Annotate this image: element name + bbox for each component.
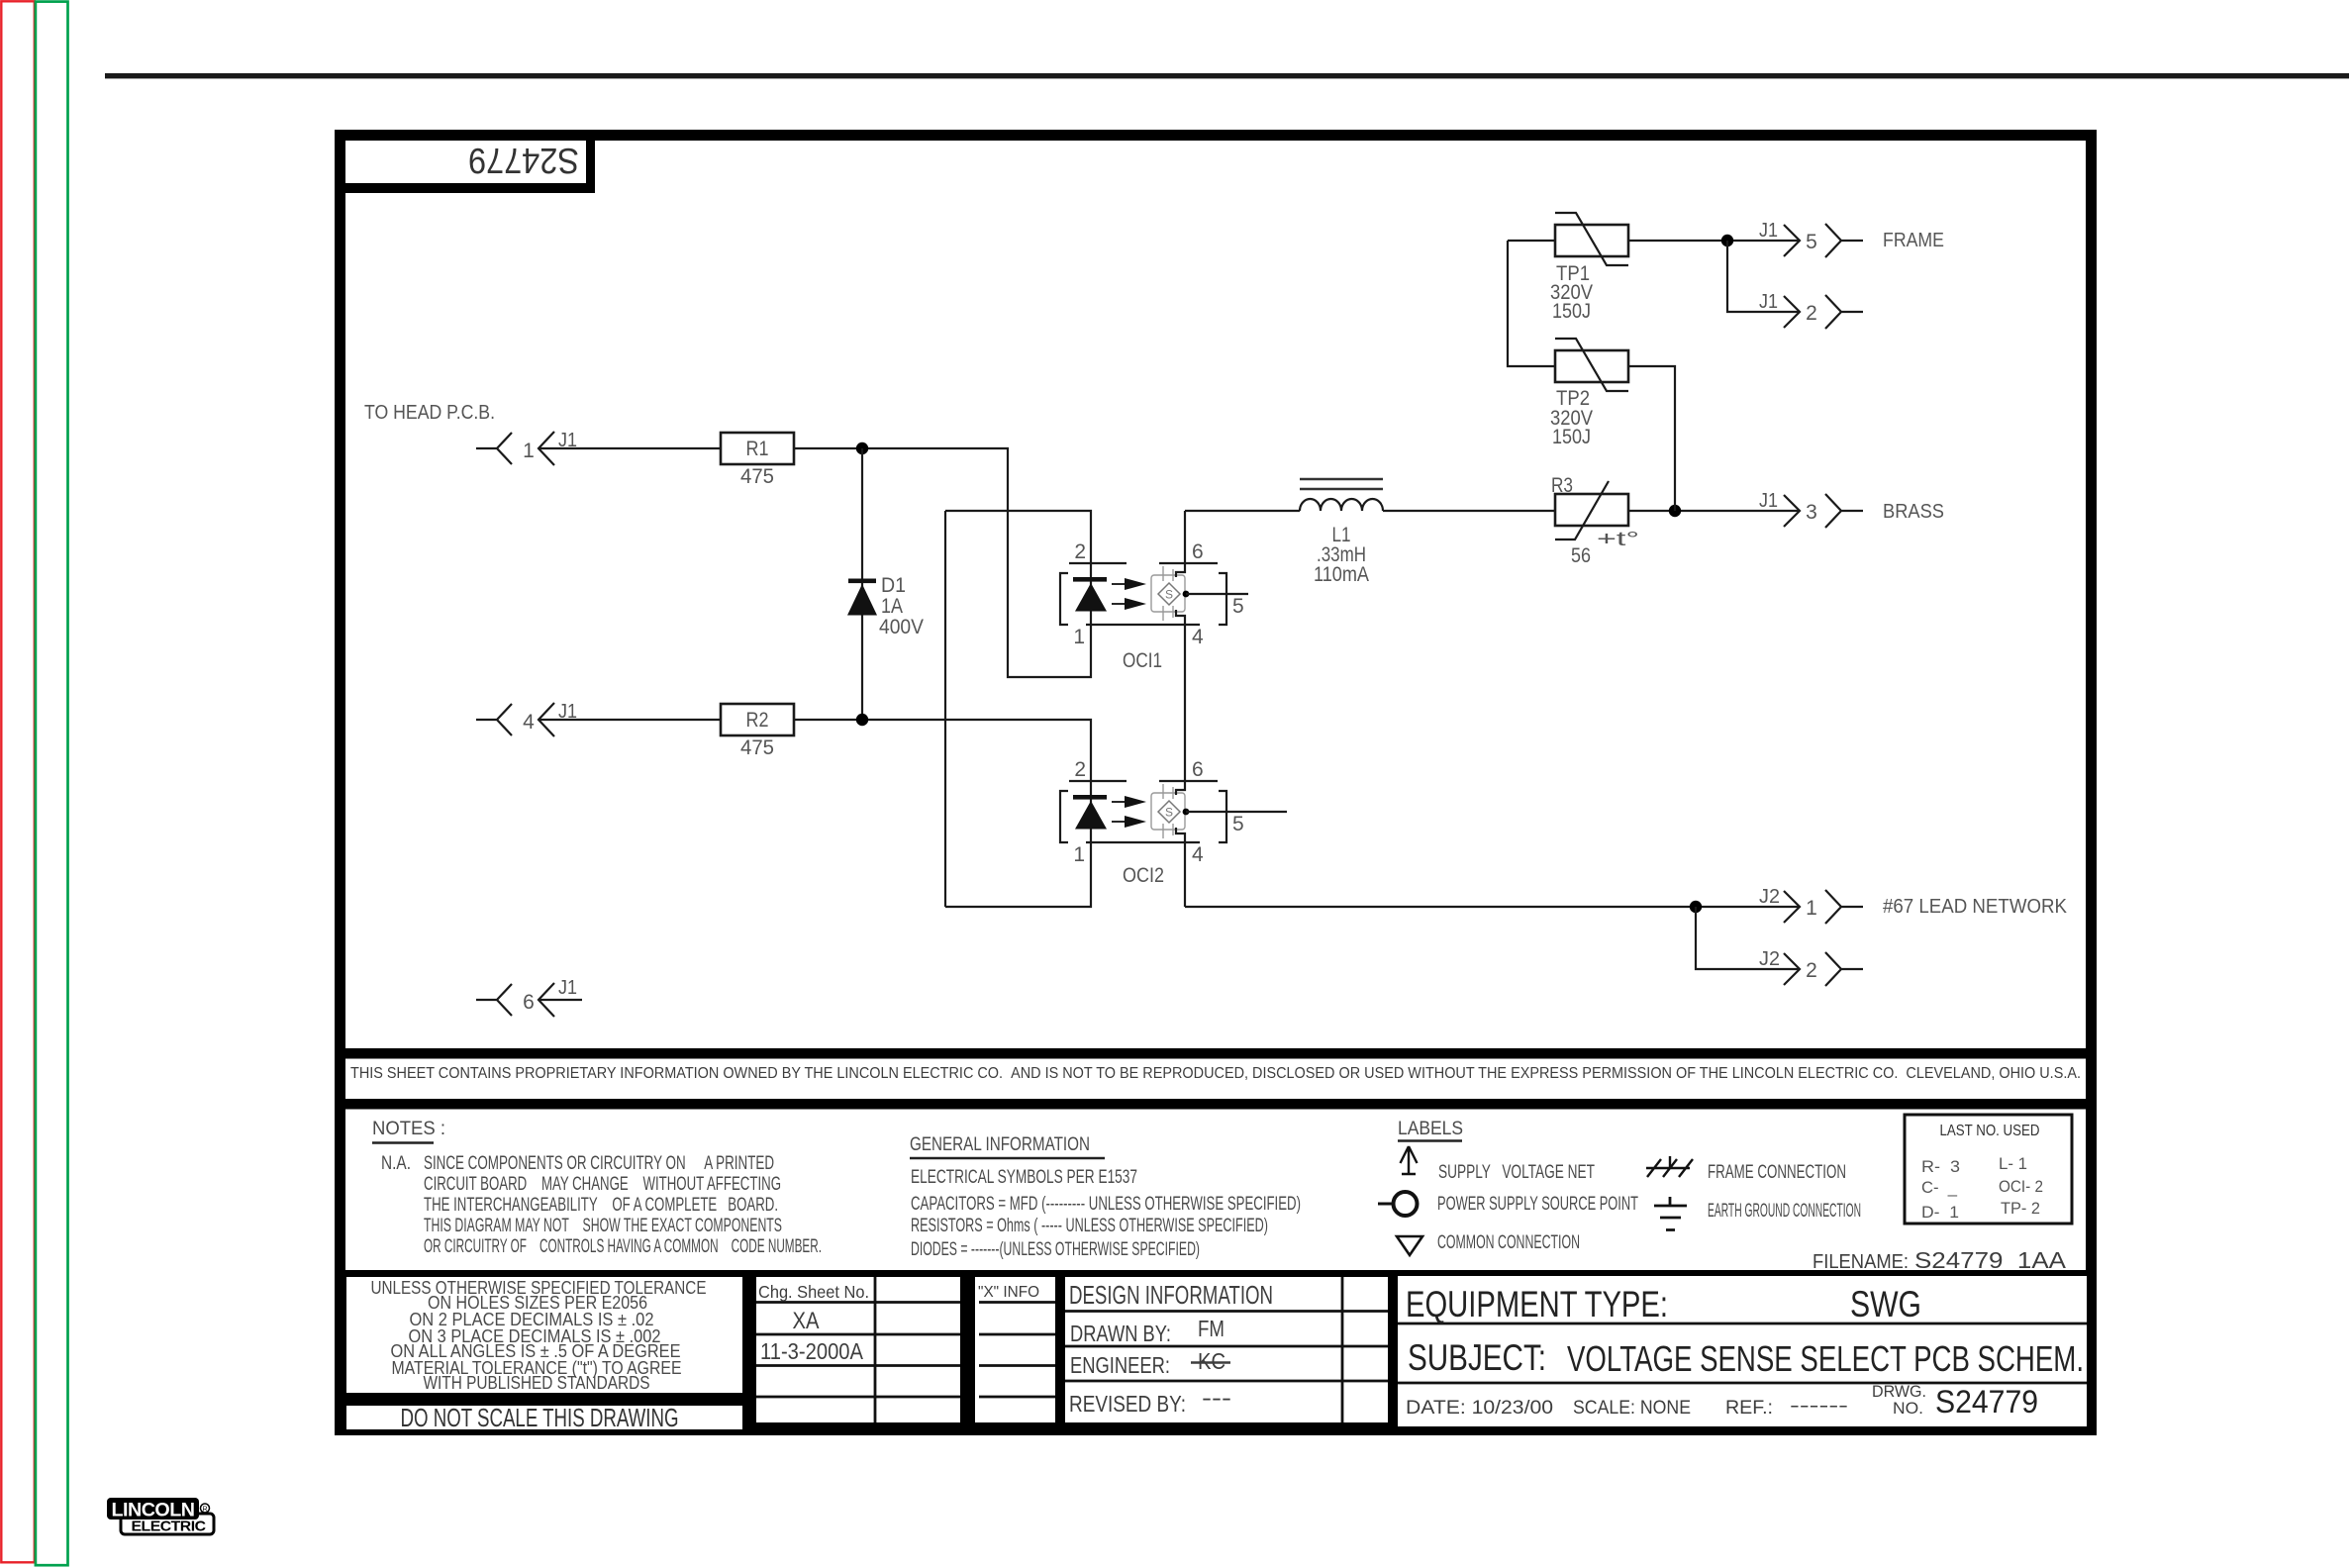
svg-text:THIS DIAGRAM MAY NOT SHOW T: THIS DIAGRAM MAY NOT SHOW THE EXACT COMP… — [424, 1216, 782, 1236]
connector J1 pin 5 — [1759, 220, 1863, 257]
svg-text:OCI1: OCI1 — [1123, 649, 1162, 672]
svg-text:TP- 2: TP- 2 — [2001, 1199, 2040, 1218]
wire node D down to J1-2 — [1727, 241, 1800, 312]
X info table — [975, 1277, 1055, 1422]
svg-text:D- 1: D- 1 — [1921, 1203, 1959, 1222]
node A junction dot — [856, 442, 868, 454]
svg-text:CAPACITORS = MFD (--------- UN: CAPACITORS = MFD (--------- UNLESS OTHER… — [911, 1194, 1301, 1215]
connector J1 pin 4 — [476, 701, 577, 736]
svg-text:N.A.: N.A. — [381, 1153, 411, 1174]
optocoupler OCI1 — [1060, 540, 1248, 672]
svg-text:5: 5 — [1232, 595, 1244, 618]
svg-text:VOLTAGE SENSE SELECT PCB SCHEM: VOLTAGE SENSE SELECT PCB SCHEM. — [1567, 1338, 2084, 1379]
svg-text:S: S — [1165, 806, 1173, 820]
svg-text:SUBJECT:: SUBJECT: — [1408, 1337, 1546, 1378]
wire node C riser to TP2 — [1629, 366, 1675, 511]
wire L1 to R3 — [1383, 510, 1555, 512]
svg-text:150J: 150J — [1552, 300, 1591, 323]
svg-text:SINCE COMPONENTS OR CIRCUITRY: SINCE COMPONENTS OR CIRCUITRY ON A PRINT… — [424, 1153, 774, 1174]
general information text block — [911, 1167, 1301, 1260]
node B junction dot — [856, 714, 868, 726]
diode D1 — [847, 574, 924, 638]
svg-text:NO.: NO. — [1893, 1399, 1923, 1418]
svg-text:4: 4 — [523, 711, 535, 734]
svg-text:EQUIPMENT TYPE:: EQUIPMENT TYPE: — [1406, 1284, 1668, 1324]
power supply source point symbol — [1378, 1192, 1638, 1216]
svg-text:TO HEAD P.C.B.: TO HEAD P.C.B. — [364, 402, 495, 424]
earth ground connection symbol — [1654, 1197, 1861, 1230]
svg-text:KC: KC — [1198, 1348, 1225, 1374]
svg-text:1: 1 — [1073, 626, 1085, 648]
common connection symbol — [1397, 1232, 1580, 1255]
wire R1 to node A and corner to OCI1 pin1 — [794, 448, 1091, 677]
NOTES heading — [372, 1119, 445, 1143]
svg-text:R- 3: R- 3 — [1921, 1157, 1960, 1176]
svg-text:OCI2: OCI2 — [1123, 864, 1164, 887]
svg-text:LABELS: LABELS — [1398, 1119, 1463, 1139]
svg-text:LAST NO. USED: LAST NO. USED — [1940, 1123, 2040, 1139]
connector J1 pin 6 (unconnected stub) — [476, 977, 582, 1017]
svg-text:1: 1 — [523, 440, 535, 462]
svg-text:2: 2 — [1806, 959, 1817, 982]
svg-text:6: 6 — [1192, 758, 1204, 781]
svg-text:DRAWN BY:: DRAWN BY: — [1070, 1321, 1171, 1346]
svg-text:#67 LEAD NETWORK: #67 LEAD NETWORK — [1883, 895, 2067, 918]
connector J1 pin 3 — [1759, 490, 1863, 528]
equipment title box — [1398, 1276, 2087, 1426]
wire OCI2 pin4 down to bottom net — [1184, 842, 1186, 907]
svg-text:WITH PUBLISHED STANDARDS: WITH PUBLISHED STANDARDS — [424, 1373, 650, 1393]
svg-text:SWG: SWG — [1850, 1284, 1921, 1324]
svg-text:LINCOLN: LINCOLN — [112, 1501, 195, 1521]
svg-text:OCI- 2: OCI- 2 — [1999, 1177, 2043, 1196]
wire OCI1 pin6 riser to top net — [1184, 511, 1186, 563]
svg-text:THIS SHEET CONTAINS PROPRIETAR: THIS SHEET CONTAINS PROPRIETARY INFORMAT… — [350, 1065, 2081, 1082]
svg-text:S24779_1AA: S24779_1AA — [1914, 1247, 2067, 1273]
svg-text:DATE: 10/23/00: DATE: 10/23/00 — [1406, 1398, 1553, 1419]
LABELS heading — [1398, 1119, 1463, 1141]
wire bottom net to J2 connectors — [1185, 906, 1800, 908]
svg-text:475: 475 — [740, 736, 774, 759]
wire TP2 left to TP1 left riser — [1508, 241, 1555, 366]
red registration border — [1, 1, 35, 1562]
svg-text:CIRCUIT BOARD MAY CHANGE: CIRCUIT BOARD MAY CHANGE WITHOUT AFFECTI… — [424, 1174, 781, 1195]
svg-text:6: 6 — [1192, 540, 1204, 563]
wire R3 to node C and BRASS connector — [1628, 510, 1800, 512]
thermistor R3 — [1551, 474, 1639, 567]
svg-text:1: 1 — [1806, 897, 1817, 920]
wire J1-1 to R1 — [539, 447, 721, 449]
svg-text:J2: J2 — [1759, 886, 1780, 908]
svg-text:R: R — [202, 1507, 207, 1514]
wire OCI1 pin2 to left riser — [945, 511, 1091, 563]
svg-text:1: 1 — [1073, 843, 1085, 866]
svg-text:J2: J2 — [1759, 948, 1780, 970]
svg-text:SCALE: NONE: SCALE: NONE — [1573, 1398, 1691, 1419]
svg-text:THE INTERCHANGEABILITY OF A: THE INTERCHANGEABILITY OF A COMPLETE BOA… — [424, 1195, 778, 1216]
resistor R1 — [721, 433, 794, 488]
svg-text:S24779: S24779 — [468, 141, 579, 181]
svg-text:BRASS: BRASS — [1883, 500, 1944, 523]
svg-text:S: S — [1165, 588, 1173, 602]
svg-text:EARTH GROUND CONNECTION: EARTH GROUND CONNECTION — [1708, 1201, 1861, 1222]
connector J2 pin 1 — [1759, 886, 1863, 924]
svg-text:---: --- — [1202, 1385, 1231, 1411]
svg-text:FILENAME:: FILENAME: — [1813, 1251, 1909, 1273]
svg-text:"X" INFO: "X" INFO — [978, 1284, 1039, 1301]
chg sheet no table — [756, 1277, 960, 1422]
top rule line — [105, 73, 2349, 78]
svg-text:J1: J1 — [1759, 220, 1778, 242]
frame connection symbol — [1646, 1156, 1846, 1183]
sheet number box S24779 (top-left, text rotated 180) — [345, 140, 595, 193]
inductor L1 — [1300, 479, 1383, 586]
LAST NO. USED box — [1905, 1115, 2072, 1224]
svg-text:DIODES = -------(UNLESS OTHERW: DIODES = -------(UNLESS OTHERWISE SPECIF… — [911, 1239, 1200, 1260]
wire bottom link to OCI2 pin1 — [945, 843, 1091, 907]
node D junction dot — [1721, 235, 1733, 246]
wire OCI1 pin4 to OCI2 pin6 — [1184, 625, 1186, 781]
svg-text:ENGINEER:: ENGINEER: — [1070, 1352, 1170, 1378]
svg-text:REVISED BY:: REVISED BY: — [1069, 1391, 1186, 1417]
svg-text:4: 4 — [1192, 626, 1204, 648]
svg-text:J1: J1 — [1759, 291, 1778, 313]
svg-text:J1: J1 — [1759, 490, 1778, 512]
connector J1 pin 1 — [476, 430, 577, 465]
tolerance notes box — [346, 1277, 742, 1393]
svg-text:REF.:: REF.: — [1725, 1398, 1773, 1419]
svg-text:FRAME: FRAME — [1883, 229, 1944, 251]
svg-text:R3: R3 — [1551, 474, 1573, 497]
svg-text:L- 1: L- 1 — [1999, 1154, 2027, 1173]
do not scale box — [346, 1403, 742, 1432]
schematic bottom separator bar — [335, 1048, 2097, 1059]
wire D1 branch vertical — [861, 448, 863, 720]
wire left riser vertical — [944, 511, 946, 907]
svg-text:D1: D1 — [881, 574, 906, 597]
connector J1 pin 2 — [1759, 291, 1863, 329]
svg-text:R2: R2 — [746, 709, 769, 732]
node E junction dot — [1690, 901, 1702, 913]
svg-text:5: 5 — [1806, 231, 1817, 253]
GENERAL INFORMATION heading — [910, 1134, 1105, 1158]
svg-text:DESIGN INFORMATION: DESIGN INFORMATION — [1069, 1280, 1273, 1310]
connector J2 pin 2 — [1759, 948, 1863, 986]
title block background — [335, 1270, 2097, 1435]
svg-text:FRAME CONNECTION: FRAME CONNECTION — [1708, 1162, 1846, 1183]
svg-text:11-3-2000A: 11-3-2000A — [760, 1338, 864, 1364]
svg-text:2: 2 — [1806, 302, 1817, 325]
svg-text:2: 2 — [1074, 540, 1086, 563]
supply voltage net symbol — [1401, 1146, 1596, 1183]
svg-text:2: 2 — [1074, 758, 1086, 781]
svg-text:DO NOT SCALE THIS DRAWING: DO NOT SCALE THIS DRAWING — [401, 1403, 679, 1432]
design information table — [1065, 1277, 1388, 1422]
svg-text:C- _: C- _ — [1921, 1178, 1958, 1197]
svg-text:COMMON CONNECTION: COMMON CONNECTION — [1437, 1232, 1580, 1253]
varistor TP2 — [1550, 339, 1628, 448]
svg-text:OR CIRCUITRY OF CONTROLS HA: OR CIRCUITRY OF CONTROLS HAVING A COMMON… — [424, 1236, 822, 1257]
svg-text:R1: R1 — [746, 438, 769, 460]
svg-text:5: 5 — [1232, 813, 1244, 835]
Lincoln Electric logo — [107, 1498, 214, 1535]
node C junction dot — [1669, 505, 1681, 517]
svg-text:FM: FM — [1198, 1316, 1225, 1341]
svg-text:400V: 400V — [879, 616, 924, 638]
svg-text:475: 475 — [740, 465, 774, 488]
svg-text:4: 4 — [1192, 843, 1204, 866]
optocoupler OCI2 — [1060, 758, 1287, 887]
varistor TP1 — [1550, 213, 1628, 323]
wire TP1 right to node D and FRAME connector — [1628, 240, 1800, 242]
svg-text:NOTES :: NOTES : — [372, 1119, 445, 1139]
svg-text:110mA: 110mA — [1314, 563, 1369, 586]
svg-text:Chg. Sheet No.: Chg. Sheet No. — [758, 1282, 869, 1302]
svg-text:RESISTORS = Ohms ( ----- UNLES: RESISTORS = Ohms ( ----- UNLESS OTHERWIS… — [911, 1216, 1268, 1236]
svg-text:150J: 150J — [1552, 426, 1591, 448]
wire J1-4 to R2 — [539, 719, 721, 721]
svg-text:+t°: +t° — [1597, 529, 1639, 550]
FILENAME label — [1813, 1247, 2067, 1273]
svg-text:56: 56 — [1571, 544, 1591, 567]
svg-text:SUPPLY VOLTAGE NET: SUPPLY VOLTAGE NET — [1438, 1162, 1595, 1183]
svg-text:XA: XA — [793, 1308, 820, 1334]
svg-text:6: 6 — [523, 991, 535, 1014]
svg-text:3: 3 — [1806, 501, 1817, 524]
wire top net OCI1 pin6 to L1 — [1185, 510, 1300, 512]
proprietary strip bottom bar — [335, 1099, 2097, 1110]
notes text block — [381, 1153, 822, 1257]
svg-text:------: ------ — [1790, 1396, 1848, 1417]
svg-text:J1: J1 — [558, 977, 577, 999]
wire node E down to J2-2 — [1696, 907, 1800, 969]
resistor R2 — [721, 704, 794, 759]
svg-text:GENERAL INFORMATION: GENERAL INFORMATION — [910, 1134, 1090, 1155]
svg-text:S24779: S24779 — [1935, 1384, 2038, 1420]
svg-text:ELECTRICAL SYMBOLS PER E1537: ELECTRICAL SYMBOLS PER E1537 — [911, 1167, 1137, 1188]
main drawing frame — [341, 136, 2092, 1430]
svg-text:POWER SUPPLY SOURCE POINT: POWER SUPPLY SOURCE POINT — [1437, 1194, 1638, 1215]
svg-text:1A: 1A — [881, 595, 903, 618]
green registration border — [36, 2, 68, 1566]
wire R2 to node B and to OCI2 pin2 — [794, 720, 1091, 781]
